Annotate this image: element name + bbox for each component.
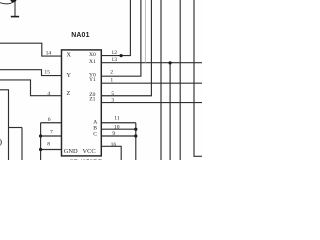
svg-text:10: 10 [114, 125, 120, 131]
multiplexer U1 NA01 body [62, 50, 102, 156]
wire A/B/C bus vertical to bottom [135, 123, 137, 160]
svg-text:Y: Y [67, 72, 72, 79]
svg-text:X1: X1 [89, 59, 96, 65]
node junction dot on pin 13 wire [169, 61, 172, 64]
wire left component vertical [8, 90, 10, 160]
wire electrode lead [14, 2, 16, 17]
wire pin 12 X0 to top [101, 0, 130, 56]
svg-text:C: C [93, 131, 97, 137]
svg-text:7: 7 [50, 130, 53, 136]
svg-text:4: 4 [47, 91, 50, 97]
wire pin 10 B [101, 128, 136, 130]
svg-text:X: X [67, 51, 72, 58]
wire pin 9 C [101, 135, 136, 137]
wire pin 8 GND [41, 149, 62, 151]
wire Z input feed from left edge [0, 80, 62, 96]
wire junction vertical from X1 line down [169, 63, 171, 160]
svg-text:CD4052BB: CD4052BB [69, 159, 103, 160]
wire Y input feed from left edge [0, 70, 62, 76]
wire pin 3 Z1 to right edge [101, 102, 202, 104]
wire pin 5 Z0 to top [101, 0, 151, 96]
wire pin 1 Y1 to right edge [101, 82, 202, 84]
wire vertical bus 1 full height [160, 0, 162, 160]
svg-text:0: 0 [0, 138, 2, 149]
wire pin 16 VCC down to bottom [101, 146, 121, 160]
wire left component box right side [21, 128, 23, 161]
svg-text:16: 16 [111, 142, 117, 148]
svg-text:Y1: Y1 [89, 77, 96, 83]
svg-text:1: 1 [110, 78, 113, 84]
svg-text:VCC: VCC [83, 148, 96, 155]
wire pin 11 A [101, 122, 136, 124]
node junction dot C wire [134, 134, 137, 137]
node junction dot pin 8 bus [39, 148, 42, 151]
svg-text:11: 11 [114, 116, 120, 122]
svg-text:9: 9 [112, 131, 115, 137]
node junction dot pin 7 bus [39, 134, 42, 137]
wire pin 13 X1 to right edge [101, 62, 202, 64]
wire vertical bus 2 full height [179, 0, 181, 160]
wire feed to left component from left edge [0, 89, 9, 91]
wire control bus vertical left (pins 6,7,8) [40, 123, 42, 160]
electrode plate [11, 16, 19, 18]
svg-text:Z1: Z1 [89, 97, 95, 103]
wire pin 6 [41, 122, 62, 124]
svg-text:2: 2 [110, 69, 113, 75]
transistor Q1 partial circle at top left [0, 1, 15, 4]
wire X input feed from left edge [0, 43, 62, 56]
wire vertical to bottom right corner [194, 0, 202, 156]
wire faint vertical [144, 0, 146, 63]
svg-text:8: 8 [47, 142, 50, 148]
svg-text:12: 12 [111, 50, 117, 56]
node junction dot B wire [134, 128, 137, 131]
svg-text:X0: X0 [89, 52, 96, 58]
node junction dot on pin 12 wire [120, 54, 123, 57]
wire left component box top [9, 127, 23, 129]
wire pin 7 [41, 135, 62, 137]
svg-text:15: 15 [44, 70, 50, 76]
wire pin 2 Y0 to top [101, 0, 141, 76]
svg-text:Z: Z [67, 90, 71, 97]
svg-text:GND: GND [64, 148, 78, 155]
svg-text:NA01: NA01 [71, 32, 89, 39]
svg-text:5: 5 [111, 91, 114, 97]
svg-text:13: 13 [111, 57, 117, 63]
svg-text:6: 6 [48, 117, 51, 123]
svg-text:3: 3 [111, 98, 114, 104]
svg-text:14: 14 [46, 50, 52, 56]
